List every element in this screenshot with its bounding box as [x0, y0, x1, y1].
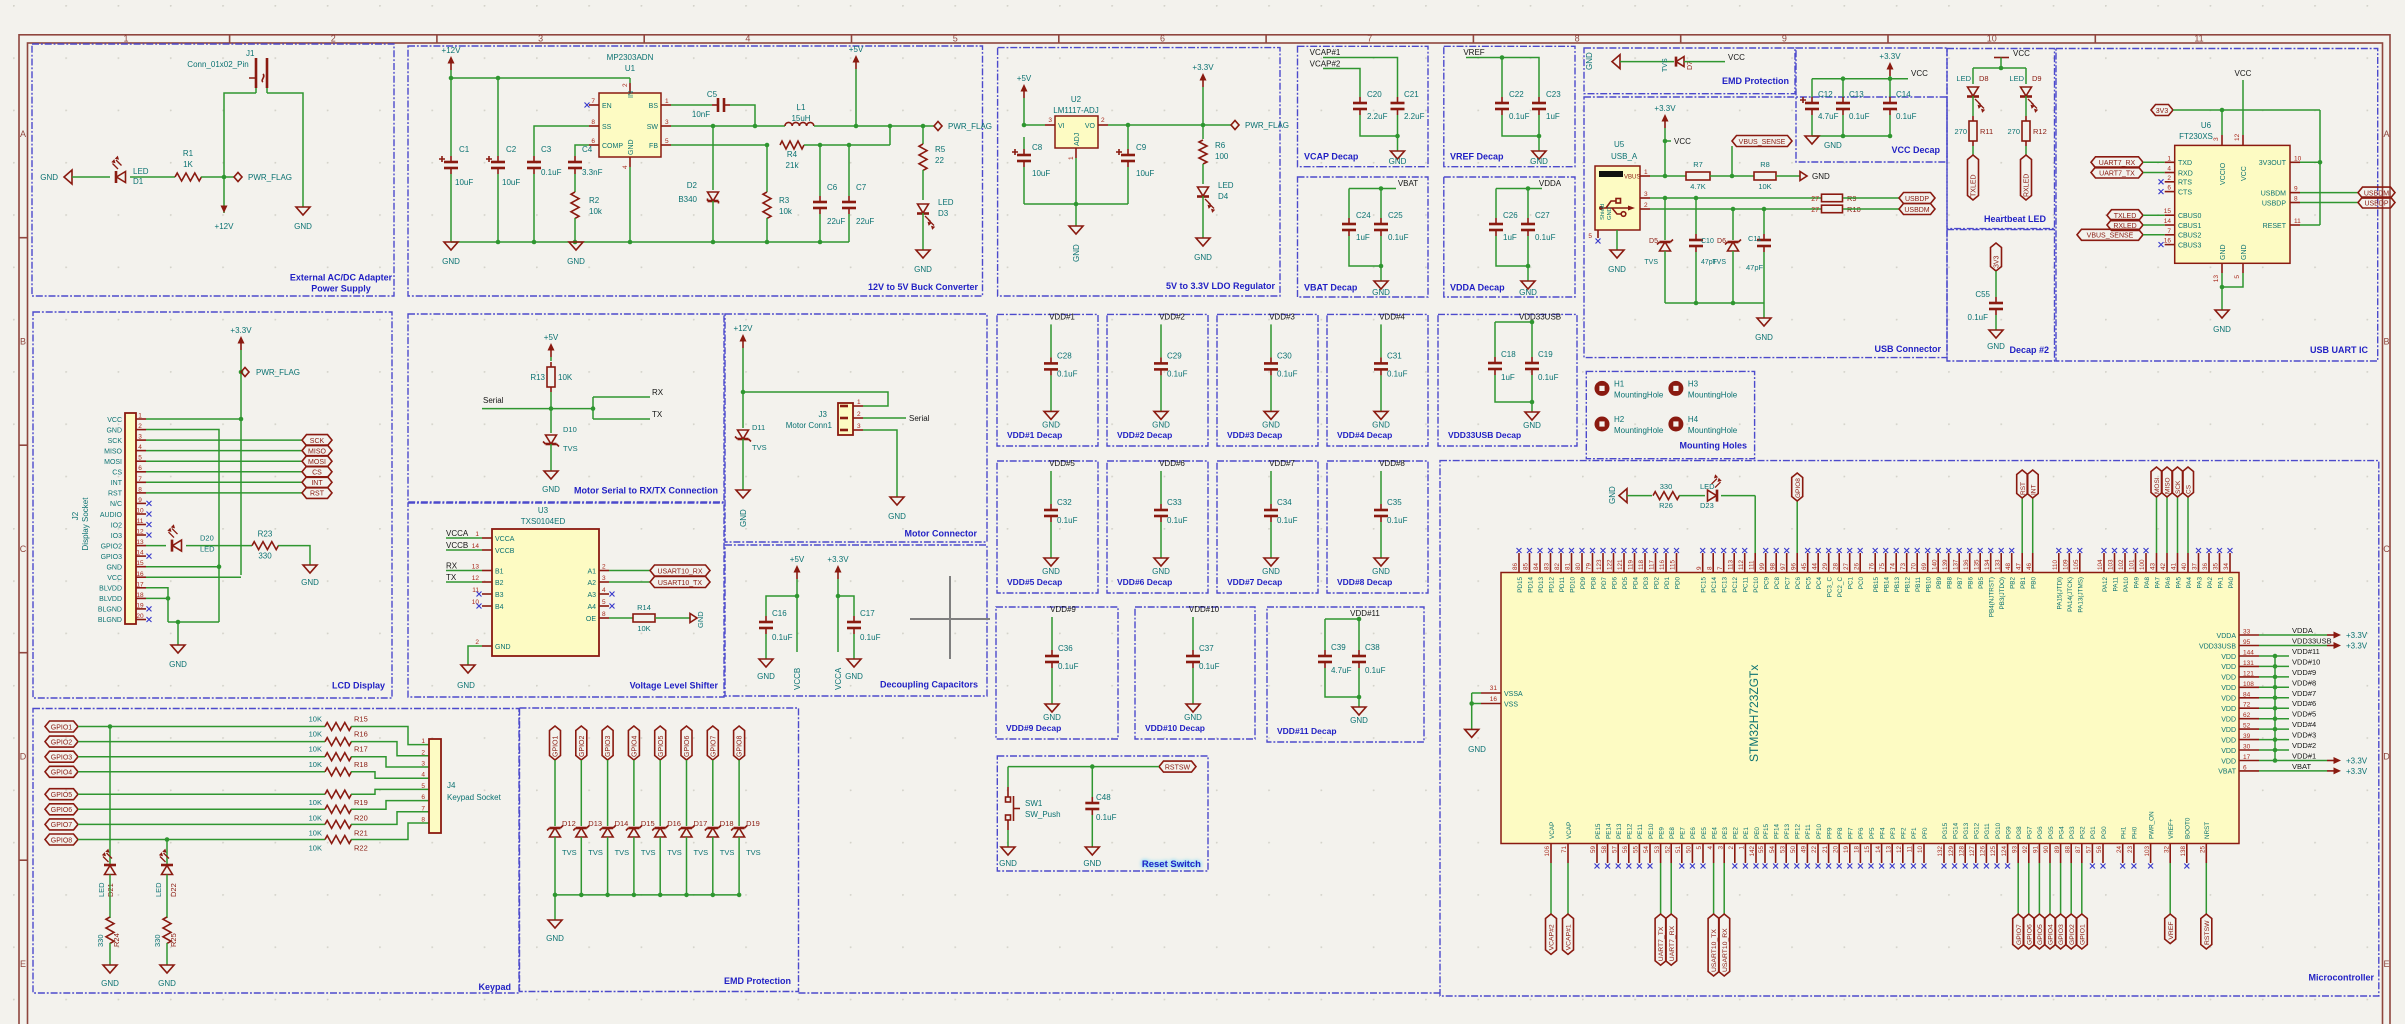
svg-text:VDD: VDD: [2221, 685, 2236, 692]
svg-text:BOOT0: BOOT0: [2185, 817, 2192, 839]
svg-text:COMP: COMP: [602, 143, 623, 150]
svg-text:4: 4: [622, 165, 629, 169]
svg-text:GND: GND: [1607, 207, 1613, 220]
svg-text:0.1uF: 0.1uF: [541, 168, 562, 177]
svg-text:3V3OUT: 3V3OUT: [2259, 160, 2287, 167]
svg-text:1: 1: [421, 738, 425, 745]
svg-text:FB: FB: [649, 143, 658, 150]
svg-text:0.1uF: 0.1uF: [1058, 662, 1079, 671]
svg-text:MISO: MISO: [104, 448, 122, 455]
svg-text:IO3: IO3: [111, 533, 122, 540]
svg-text:10K: 10K: [558, 373, 573, 382]
svg-text:Motor Connector: Motor Connector: [905, 529, 978, 539]
svg-text:Motor Serial to RX/TX Connecti: Motor Serial to RX/TX Connection: [574, 486, 718, 496]
svg-text:PE0: PE0: [1754, 827, 1761, 839]
svg-text:E: E: [2383, 959, 2389, 969]
svg-text:VCAP#2: VCAP#2: [1310, 60, 1341, 69]
svg-text:C1: C1: [459, 145, 470, 154]
svg-text:TVS: TVS: [588, 848, 603, 857]
svg-text:15: 15: [2164, 208, 2172, 215]
svg-text:16: 16: [1490, 696, 1498, 703]
svg-text:PG11: PG11: [1984, 823, 1991, 839]
svg-text:TVS: TVS: [1644, 259, 1658, 266]
svg-text:UART7_RX: UART7_RX: [2099, 160, 2136, 167]
svg-text:D19: D19: [746, 819, 760, 828]
svg-text:0.1uF: 0.1uF: [1365, 666, 1386, 675]
svg-text:PG13: PG13: [1963, 822, 1970, 839]
svg-text:GND: GND: [1372, 567, 1390, 576]
svg-text:+3.3V: +3.3V: [1192, 63, 1214, 72]
svg-text:H4: H4: [1688, 415, 1699, 424]
svg-text:1: 1: [857, 399, 861, 406]
svg-text:D20: D20: [200, 534, 214, 543]
svg-text:21: 21: [1822, 846, 1829, 854]
svg-text:USB_A: USB_A: [1611, 152, 1638, 161]
svg-text:GND: GND: [1372, 420, 1390, 429]
svg-text:10K: 10K: [309, 828, 322, 837]
svg-text:25: 25: [2200, 846, 2207, 854]
svg-text:1: 1: [665, 98, 669, 105]
svg-text:GND: GND: [495, 644, 511, 651]
svg-text:PB11: PB11: [1915, 577, 1922, 592]
svg-text:76: 76: [1868, 562, 1875, 570]
svg-text:5: 5: [953, 34, 958, 44]
svg-text:PH0: PH0: [2132, 826, 2139, 839]
svg-text:8: 8: [138, 486, 142, 493]
svg-text:+3.3V: +3.3V: [1879, 52, 1901, 61]
svg-text:U1: U1: [625, 64, 636, 73]
svg-text:PF6: PF6: [1858, 827, 1865, 839]
svg-text:C31: C31: [1387, 351, 1402, 360]
svg-text:PG3: PG3: [2069, 826, 2076, 839]
svg-text:PF14: PF14: [1773, 823, 1780, 839]
svg-text:1uF: 1uF: [1503, 233, 1517, 242]
svg-text:C3: C3: [541, 145, 552, 154]
svg-text:1K: 1K: [183, 160, 193, 169]
svg-text:7: 7: [591, 98, 595, 105]
svg-text:MISO: MISO: [308, 448, 326, 455]
svg-text:10K: 10K: [309, 715, 322, 724]
svg-text:MOSI: MOSI: [308, 459, 326, 466]
svg-text:PF3: PF3: [1890, 827, 1897, 839]
svg-text:C28: C28: [1057, 351, 1072, 360]
svg-text:VDD#6: VDD#6: [2292, 699, 2316, 708]
svg-text:D22: D22: [169, 883, 178, 897]
svg-text:PB10: PB10: [1926, 577, 1933, 593]
svg-text:PC1: PC1: [1848, 577, 1855, 590]
svg-text:PD2: PD2: [1653, 577, 1660, 590]
svg-text:75: 75: [1879, 562, 1886, 570]
svg-text:GND: GND: [1194, 253, 1212, 262]
svg-text:102: 102: [2118, 559, 2125, 570]
svg-text:330: 330: [153, 934, 162, 947]
svg-text:OE: OE: [586, 616, 596, 623]
svg-text:73: 73: [1900, 562, 1907, 570]
svg-text:B2: B2: [495, 580, 504, 587]
svg-text:PWR_FLAG: PWR_FLAG: [248, 173, 292, 182]
svg-text:6: 6: [138, 465, 142, 472]
svg-text:5: 5: [2234, 275, 2241, 279]
svg-text:7: 7: [2167, 228, 2171, 235]
svg-text:PG7: PG7: [2027, 826, 2034, 839]
svg-text:GND: GND: [1987, 342, 2005, 351]
svg-text:U3: U3: [538, 506, 549, 515]
svg-text:56: 56: [2096, 846, 2103, 854]
svg-text:PB9: PB9: [1936, 577, 1943, 589]
svg-text:R16: R16: [354, 730, 368, 739]
svg-text:VBAT: VBAT: [2218, 769, 2236, 776]
svg-text:VDD#11: VDD#11: [1350, 609, 1380, 618]
svg-text:VSS: VSS: [1504, 702, 1518, 709]
svg-text:125: 125: [1990, 846, 1997, 857]
svg-text:10K: 10K: [309, 730, 322, 739]
svg-text:VREF+: VREF+: [2168, 818, 2175, 839]
svg-text:GPIO7: GPIO7: [710, 735, 717, 757]
svg-text:50: 50: [1790, 846, 1797, 854]
svg-text:13: 13: [136, 539, 144, 546]
svg-text:GPIO4: GPIO4: [51, 770, 73, 777]
svg-text:VCCB: VCCB: [446, 541, 468, 550]
svg-text:VCAP Decap: VCAP Decap: [1304, 152, 1359, 162]
svg-text:VDD: VDD: [2221, 675, 2236, 682]
svg-text:VDD#3: VDD#3: [1269, 312, 1295, 321]
svg-text:15uH: 15uH: [791, 114, 810, 123]
svg-text:LED: LED: [2009, 74, 2024, 83]
svg-text:81: 81: [1565, 562, 1572, 570]
svg-text:PB1: PB1: [2020, 577, 2027, 589]
svg-text:59: 59: [1590, 846, 1597, 854]
svg-text:GND: GND: [757, 672, 775, 681]
svg-text:Decoupling Capacitors: Decoupling Capacitors: [880, 680, 978, 690]
svg-text:0.1uF: 0.1uF: [1509, 112, 1530, 121]
svg-text:VCC: VCC: [1728, 53, 1745, 62]
svg-text:104: 104: [2097, 559, 2104, 570]
svg-text:GND: GND: [1468, 745, 1486, 754]
svg-text:13: 13: [472, 564, 480, 571]
svg-text:GPIO1: GPIO1: [2079, 924, 2086, 945]
svg-text:3: 3: [538, 34, 543, 44]
svg-text:92: 92: [2022, 846, 2029, 854]
svg-text:VDD#2: VDD#2: [1159, 312, 1185, 321]
svg-text:GND: GND: [1585, 52, 1594, 70]
svg-text:PG1: PG1: [2090, 826, 2097, 839]
svg-text:GND: GND: [1608, 265, 1626, 274]
svg-text:+5V: +5V: [544, 333, 559, 342]
svg-text:R13: R13: [530, 373, 545, 382]
svg-text:1: 1: [475, 531, 479, 538]
svg-text:3: 3: [665, 119, 669, 126]
svg-text:IN: IN: [628, 91, 635, 98]
svg-text:VCAP: VCAP: [1566, 822, 1573, 839]
svg-text:44: 44: [1811, 562, 1818, 570]
svg-text:8: 8: [421, 817, 425, 824]
svg-text:110: 110: [2052, 559, 2059, 570]
svg-text:VO: VO: [1085, 123, 1096, 130]
svg-text:VCCA: VCCA: [495, 536, 515, 543]
svg-text:C34: C34: [1277, 498, 1292, 507]
svg-text:GND: GND: [999, 859, 1017, 868]
svg-text:136: 136: [1963, 559, 1970, 570]
svg-text:10K: 10K: [309, 844, 322, 853]
svg-text:CBUS3: CBUS3: [2178, 242, 2201, 249]
svg-text:TVS: TVS: [694, 848, 709, 857]
svg-text:VCCA: VCCA: [446, 529, 469, 538]
svg-text:USBDM: USBDM: [1904, 207, 1929, 214]
svg-text:0.1uF: 0.1uF: [1968, 313, 1989, 322]
svg-text:3: 3: [857, 423, 861, 430]
svg-text:A3: A3: [587, 592, 596, 599]
svg-text:SW_Push: SW_Push: [1025, 810, 1061, 819]
svg-text:B: B: [20, 337, 26, 347]
svg-text:+5V: +5V: [849, 45, 864, 54]
svg-text:VDD#5: VDD#5: [2292, 710, 2316, 719]
svg-text:2: 2: [421, 749, 425, 756]
svg-text:4: 4: [602, 587, 606, 594]
svg-text:SCK: SCK: [310, 438, 325, 445]
svg-text:PA2: PA2: [2207, 577, 2214, 589]
svg-text:PF4: PF4: [1879, 827, 1886, 839]
svg-text:R2: R2: [589, 196, 600, 205]
svg-text:GND: GND: [2241, 244, 2248, 260]
svg-text:A: A: [2383, 129, 2389, 139]
svg-text:53: 53: [1779, 846, 1786, 854]
svg-text:C22: C22: [1509, 90, 1524, 99]
svg-text:GND: GND: [1042, 567, 1060, 576]
svg-text:NRST: NRST: [2204, 822, 2211, 839]
svg-text:21k: 21k: [786, 161, 800, 170]
svg-text:TVS: TVS: [667, 848, 682, 857]
svg-text:VDD#7: VDD#7: [1269, 459, 1295, 468]
svg-text:VDDA: VDDA: [2217, 633, 2237, 640]
svg-text:2: 2: [602, 564, 606, 571]
svg-text:2: 2: [857, 411, 861, 418]
svg-text:PB14: PB14: [1884, 577, 1891, 593]
svg-text:J4: J4: [447, 781, 456, 790]
svg-text:0.1uF: 0.1uF: [860, 633, 881, 642]
svg-text:N/C: N/C: [110, 501, 122, 508]
svg-text:42: 42: [2160, 562, 2167, 570]
svg-text:PD10: PD10: [1569, 577, 1576, 593]
svg-text:16: 16: [2164, 238, 2172, 245]
svg-text:GPIO2: GPIO2: [2069, 924, 2076, 945]
svg-text:128: 128: [1958, 846, 1965, 857]
svg-text:10k: 10k: [589, 207, 603, 216]
svg-text:PF11: PF11: [1805, 824, 1812, 839]
svg-text:D18: D18: [720, 819, 734, 828]
svg-text:96: 96: [1790, 562, 1797, 570]
svg-text:UART7_TX: UART7_TX: [2099, 170, 2135, 177]
svg-text:+3.3V: +3.3V: [2346, 631, 2368, 640]
svg-text:12V to 5V Buck Converter: 12V to 5V Buck Converter: [868, 282, 979, 292]
svg-text:U6: U6: [2201, 121, 2212, 130]
svg-text:22: 22: [1811, 846, 1818, 854]
svg-text:15: 15: [1864, 846, 1871, 854]
svg-text:PF2: PF2: [1901, 827, 1908, 839]
svg-text:18: 18: [1854, 846, 1861, 854]
svg-text:U2: U2: [1071, 95, 1082, 104]
svg-text:PF10: PF10: [1816, 823, 1823, 839]
svg-text:USBDP: USBDP: [2262, 200, 2286, 207]
svg-text:GND: GND: [1372, 288, 1390, 297]
svg-text:C37: C37: [1199, 644, 1214, 653]
svg-text:C4: C4: [582, 145, 593, 154]
svg-text:5V to 3.3V LDO Regulator: 5V to 3.3V LDO Regulator: [1166, 281, 1276, 291]
svg-text:GND: GND: [1072, 244, 1081, 262]
svg-text:C24: C24: [1356, 211, 1371, 220]
svg-text:PH1: PH1: [2121, 826, 2128, 839]
svg-text:PE2: PE2: [1733, 827, 1740, 839]
svg-text:J2: J2: [71, 511, 80, 520]
svg-text:A2: A2: [587, 580, 596, 587]
svg-text:VDD#3: VDD#3: [2292, 731, 2316, 740]
svg-text:VDD#10 Decap: VDD#10 Decap: [1145, 723, 1205, 733]
svg-text:VDD#1: VDD#1: [1049, 312, 1075, 321]
svg-text:External AC/DC Adapter: External AC/DC Adapter: [290, 273, 393, 283]
svg-text:100: 100: [1215, 152, 1229, 161]
svg-text:GND: GND: [1530, 157, 1548, 166]
svg-text:VDD#5 Decap: VDD#5 Decap: [1007, 577, 1062, 587]
svg-text:LED: LED: [133, 167, 149, 176]
svg-text:82: 82: [1554, 562, 1561, 570]
svg-text:1: 1: [1068, 156, 1075, 160]
svg-text:PG12: PG12: [1974, 822, 1981, 839]
svg-text:138: 138: [2180, 846, 2187, 857]
svg-text:GPIO1: GPIO1: [51, 724, 73, 731]
svg-text:TVS: TVS: [720, 848, 735, 857]
svg-text:VDD: VDD: [2221, 748, 2236, 755]
svg-text:330: 330: [258, 552, 272, 561]
svg-text:TVS: TVS: [641, 848, 656, 857]
svg-text:134: 134: [1984, 559, 1991, 570]
svg-text:48: 48: [2005, 562, 2012, 570]
svg-text:VDD: VDD: [2221, 758, 2236, 765]
svg-text:9: 9: [138, 497, 142, 504]
svg-text:GPIO5: GPIO5: [658, 735, 665, 757]
svg-text:0.1uF: 0.1uF: [1277, 516, 1298, 525]
svg-text:C17: C17: [860, 609, 875, 618]
svg-text:GND: GND: [442, 257, 460, 266]
svg-text:GND: GND: [845, 672, 863, 681]
svg-text:C36: C36: [1058, 644, 1073, 653]
svg-text:22uF: 22uF: [827, 217, 845, 226]
svg-text:Shield: Shield: [1600, 204, 1606, 220]
svg-text:105: 105: [2073, 559, 2080, 570]
svg-text:89: 89: [2054, 846, 2061, 854]
svg-text:MP2303ADN: MP2303ADN: [607, 53, 654, 62]
svg-text:C18: C18: [1501, 350, 1516, 359]
svg-text:116: 116: [1659, 559, 1666, 570]
svg-text:5: 5: [138, 455, 142, 462]
svg-text:R18: R18: [354, 760, 368, 769]
svg-text:C38: C38: [1365, 643, 1380, 652]
svg-text:D11: D11: [752, 423, 765, 432]
svg-text:2: 2: [1728, 846, 1735, 850]
svg-text:VBAT: VBAT: [2292, 762, 2311, 771]
svg-text:CS: CS: [2186, 484, 2193, 494]
svg-text:GPIO5: GPIO5: [2037, 924, 2044, 945]
svg-text:D: D: [20, 752, 27, 762]
svg-text:SW: SW: [647, 124, 659, 131]
svg-text:PA9: PA9: [2133, 577, 2140, 589]
svg-text:VBUS_SENSE: VBUS_SENSE: [2087, 233, 2134, 240]
svg-text:10: 10: [2294, 155, 2302, 162]
svg-text:GND: GND: [696, 611, 705, 628]
svg-text:3V3: 3V3: [1994, 255, 2001, 268]
svg-text:PG10: PG10: [1995, 822, 2002, 839]
svg-text:GND: GND: [1042, 420, 1060, 429]
svg-text:GND: GND: [914, 265, 932, 274]
svg-text:RESET: RESET: [2263, 223, 2287, 230]
svg-text:+3.3V: +3.3V: [2346, 757, 2368, 766]
svg-text:10: 10: [1987, 34, 1997, 44]
svg-text:PD1: PD1: [1664, 577, 1671, 590]
svg-text:BLGND: BLGND: [98, 607, 122, 614]
svg-text:C8: C8: [1032, 143, 1043, 152]
svg-text:PA15(JTDI): PA15(JTDI): [2057, 577, 2064, 609]
svg-text:119: 119: [1628, 559, 1635, 570]
svg-text:R23: R23: [258, 530, 273, 539]
svg-text:86: 86: [1512, 562, 1519, 570]
svg-text:R6: R6: [1215, 141, 1226, 150]
svg-text:USART10_TX: USART10_TX: [1711, 929, 1718, 972]
svg-text:GND: GND: [106, 427, 122, 434]
svg-text:54: 54: [1769, 846, 1776, 854]
svg-text:1uF: 1uF: [1546, 112, 1560, 121]
svg-text:GPIO8: GPIO8: [51, 837, 73, 844]
svg-text:10k: 10k: [779, 207, 793, 216]
svg-text:Keypad Socket: Keypad Socket: [447, 793, 502, 802]
svg-text:R17: R17: [354, 745, 368, 754]
svg-text:C7: C7: [856, 183, 867, 192]
svg-text:3: 3: [602, 575, 606, 582]
svg-text:E: E: [20, 959, 26, 969]
svg-text:PG8: PG8: [2016, 826, 2023, 839]
svg-text:10K: 10K: [309, 798, 322, 807]
svg-text:GPIO6: GPIO6: [51, 807, 73, 814]
svg-text:VCAP#1: VCAP#1: [1310, 48, 1341, 57]
svg-text:VCC Decap: VCC Decap: [1891, 145, 1940, 155]
svg-text:PG5: PG5: [2048, 826, 2055, 839]
svg-text:B1: B1: [495, 568, 504, 575]
svg-text:VDD#4: VDD#4: [2292, 720, 2316, 729]
svg-text:123: 123: [1596, 559, 1603, 570]
svg-text:PD7: PD7: [1601, 577, 1608, 590]
svg-text:CTS: CTS: [2178, 189, 2192, 196]
svg-text:C13: C13: [1849, 90, 1864, 99]
svg-text:PE10: PE10: [1648, 823, 1655, 839]
svg-text:7: 7: [1717, 566, 1724, 570]
svg-text:PC2_C: PC2_C: [1837, 577, 1844, 598]
svg-text:VDD#3 Decap: VDD#3 Decap: [1227, 430, 1282, 440]
svg-text:11: 11: [1907, 846, 1914, 853]
svg-text:2: 2: [622, 83, 629, 87]
svg-text:PE11: PE11: [1637, 824, 1644, 839]
svg-text:112: 112: [1738, 559, 1745, 570]
svg-text:3: 3: [1048, 117, 1052, 124]
svg-text:2: 2: [2167, 175, 2171, 182]
svg-text:VCC: VCC: [2241, 166, 2248, 181]
svg-text:10nF: 10nF: [692, 110, 710, 119]
svg-text:INT: INT: [2030, 485, 2037, 496]
svg-text:7: 7: [138, 476, 142, 483]
svg-text:RST: RST: [108, 491, 123, 498]
svg-text:10: 10: [136, 508, 144, 515]
svg-text:19: 19: [1843, 846, 1850, 854]
svg-text:C26: C26: [1503, 211, 1518, 220]
svg-text:USART10_RX: USART10_RX: [657, 568, 702, 575]
svg-text:11: 11: [137, 518, 144, 525]
svg-text:VDD#9: VDD#9: [2292, 668, 2316, 677]
